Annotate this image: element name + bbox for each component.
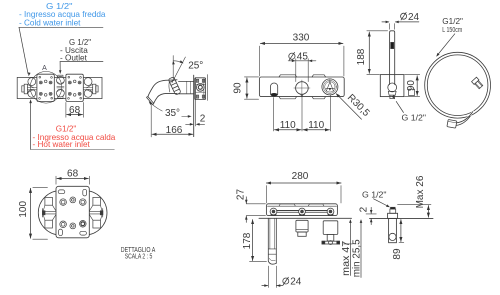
dim 2 (wall offset) (186, 114, 206, 126)
svg-text:68: 68 (69, 105, 81, 116)
svg-text:- Cold water inlet: - Cold water inlet (19, 19, 81, 28)
wall bar (in-wall mixer body, front) (17, 77, 102, 98)
dim 188 (356, 31, 388, 75)
node red annotation: hot water inlet (33, 125, 116, 150)
wall line (side view) (193, 75, 195, 136)
handle below wall (end view) (389, 218, 397, 242)
svg-text:100: 100 (18, 201, 29, 218)
svg-text:G 1/2": G 1/2" (402, 114, 427, 123)
detail circle A (30, 72, 62, 104)
dim d24 (handshower) (382, 12, 420, 30)
node G 1/2 leader (handshower) (392, 95, 426, 122)
node hot-inlet-leader (29, 99, 32, 149)
in-wall body (side) (195, 75, 208, 126)
dim max47 / min 25,5 (341, 219, 362, 277)
bar (top view) (266, 204, 337, 216)
wall line (top view) (259, 217, 352, 219)
wire (19, 27, 114, 149)
dim 330 (259, 33, 344, 76)
dim 90 (bar height, left) (232, 77, 258, 99)
bar section above wall (388, 207, 398, 218)
svg-text:110: 110 (280, 120, 296, 131)
spout body cylinder (179, 81, 194, 93)
svg-text:24: 24 (408, 12, 420, 23)
svg-text:A: A (42, 65, 47, 72)
svg-text:35°: 35° (165, 108, 180, 119)
mixer knob (top view) (296, 220, 308, 236)
node blue annotation: cold water inlet (19, 2, 106, 28)
svg-text:G1/2": G1/2" (442, 17, 463, 26)
spout (147, 80, 177, 105)
right hex union (detail) (89, 197, 103, 228)
left mounting plate (37, 74, 54, 101)
dim 90 (bracket) + square (405, 75, 420, 97)
holder bracket (380, 75, 404, 99)
dim d24 (tube) (262, 266, 302, 288)
dim 68 (top view) (66, 102, 83, 117)
svg-text:178: 178 (242, 232, 253, 249)
dim 178 (242, 220, 266, 262)
dim 68 (detail) (56, 169, 89, 185)
dim 100 (detail) (18, 187, 48, 239)
temperature knob (R30.5) (322, 79, 338, 95)
dim 110 110 (274, 95, 331, 131)
wall line (end view) (370, 217, 434, 219)
left hex union (22, 78, 37, 98)
svg-text:45: 45 (297, 52, 309, 63)
dim 27 (235, 189, 265, 223)
node DETTAGLIO A label (121, 247, 156, 261)
mounting plate (detail) (56, 186, 89, 238)
temperature handle (tilted 25deg) (168, 77, 181, 95)
svg-text:27: 27 (235, 189, 246, 201)
svg-text:2: 2 (200, 114, 206, 125)
hose tail + connector (447, 112, 473, 129)
svg-text:68: 68 (67, 169, 79, 180)
dim 25deg (172, 56, 203, 83)
svg-text:- Hot water inlet: - Hot water inlet (33, 140, 91, 149)
node hose annotation (436, 17, 463, 57)
svg-text:Max 26: Max 26 (415, 175, 426, 208)
dim 35deg (149, 101, 192, 119)
mixer knob (d45) (294, 80, 310, 97)
dim 89 (392, 220, 404, 260)
thermostatic bar (front) (259, 75, 344, 99)
svg-text:max 47: max 47 (341, 240, 352, 275)
svg-text:G 1/2": G 1/2" (362, 190, 387, 199)
svg-text:90: 90 (232, 82, 243, 94)
svg-text:280: 280 (292, 171, 309, 182)
right hex union (83, 78, 98, 98)
svg-text:330: 330 (293, 33, 310, 44)
dim 280 (266, 171, 341, 203)
svg-text:110: 110 (308, 120, 324, 131)
svg-text:166: 166 (166, 125, 183, 136)
handshower holder socket (271, 83, 278, 96)
dim d45 (288, 52, 316, 82)
handshower tube (top view) (268, 218, 276, 264)
svg-text:SCALA 2 : 5: SCALA 2 : 5 (125, 254, 153, 261)
middle unions (57, 75, 65, 98)
dim 2 (end view) (358, 206, 376, 224)
svg-text:89: 89 (392, 248, 403, 260)
svg-text:R30,5: R30,5 (345, 92, 372, 119)
svg-text:L 150cm: L 150cm (442, 27, 462, 34)
dim 166 (151, 105, 193, 137)
svg-text:2: 2 (358, 206, 369, 212)
node G 1/2 (end view) (362, 190, 390, 207)
shower hose coil (425, 52, 491, 118)
svg-text:25°: 25° (188, 60, 203, 71)
svg-text:188: 188 (356, 48, 367, 65)
mounting bosses (top view) (270, 208, 334, 215)
hose inlet fitting (472, 77, 484, 89)
handshower (side) (390, 31, 395, 85)
node outlet-leader (59, 62, 62, 74)
node cold-inlet-leader (19, 27, 31, 76)
svg-text:24: 24 (290, 276, 302, 287)
right mounting plate (66, 74, 83, 101)
temperature knob (top view) (322, 221, 340, 245)
dim R30.5 leader (336, 92, 372, 119)
dim Max 26 (398, 175, 432, 217)
svg-text:min 25,5: min 25,5 (352, 239, 363, 277)
node black annotation: outlet (60, 38, 91, 63)
left hex union (detail) (42, 197, 56, 228)
svg-text:- Outlet: - Outlet (60, 54, 88, 63)
detail A body lobes (38, 191, 107, 235)
